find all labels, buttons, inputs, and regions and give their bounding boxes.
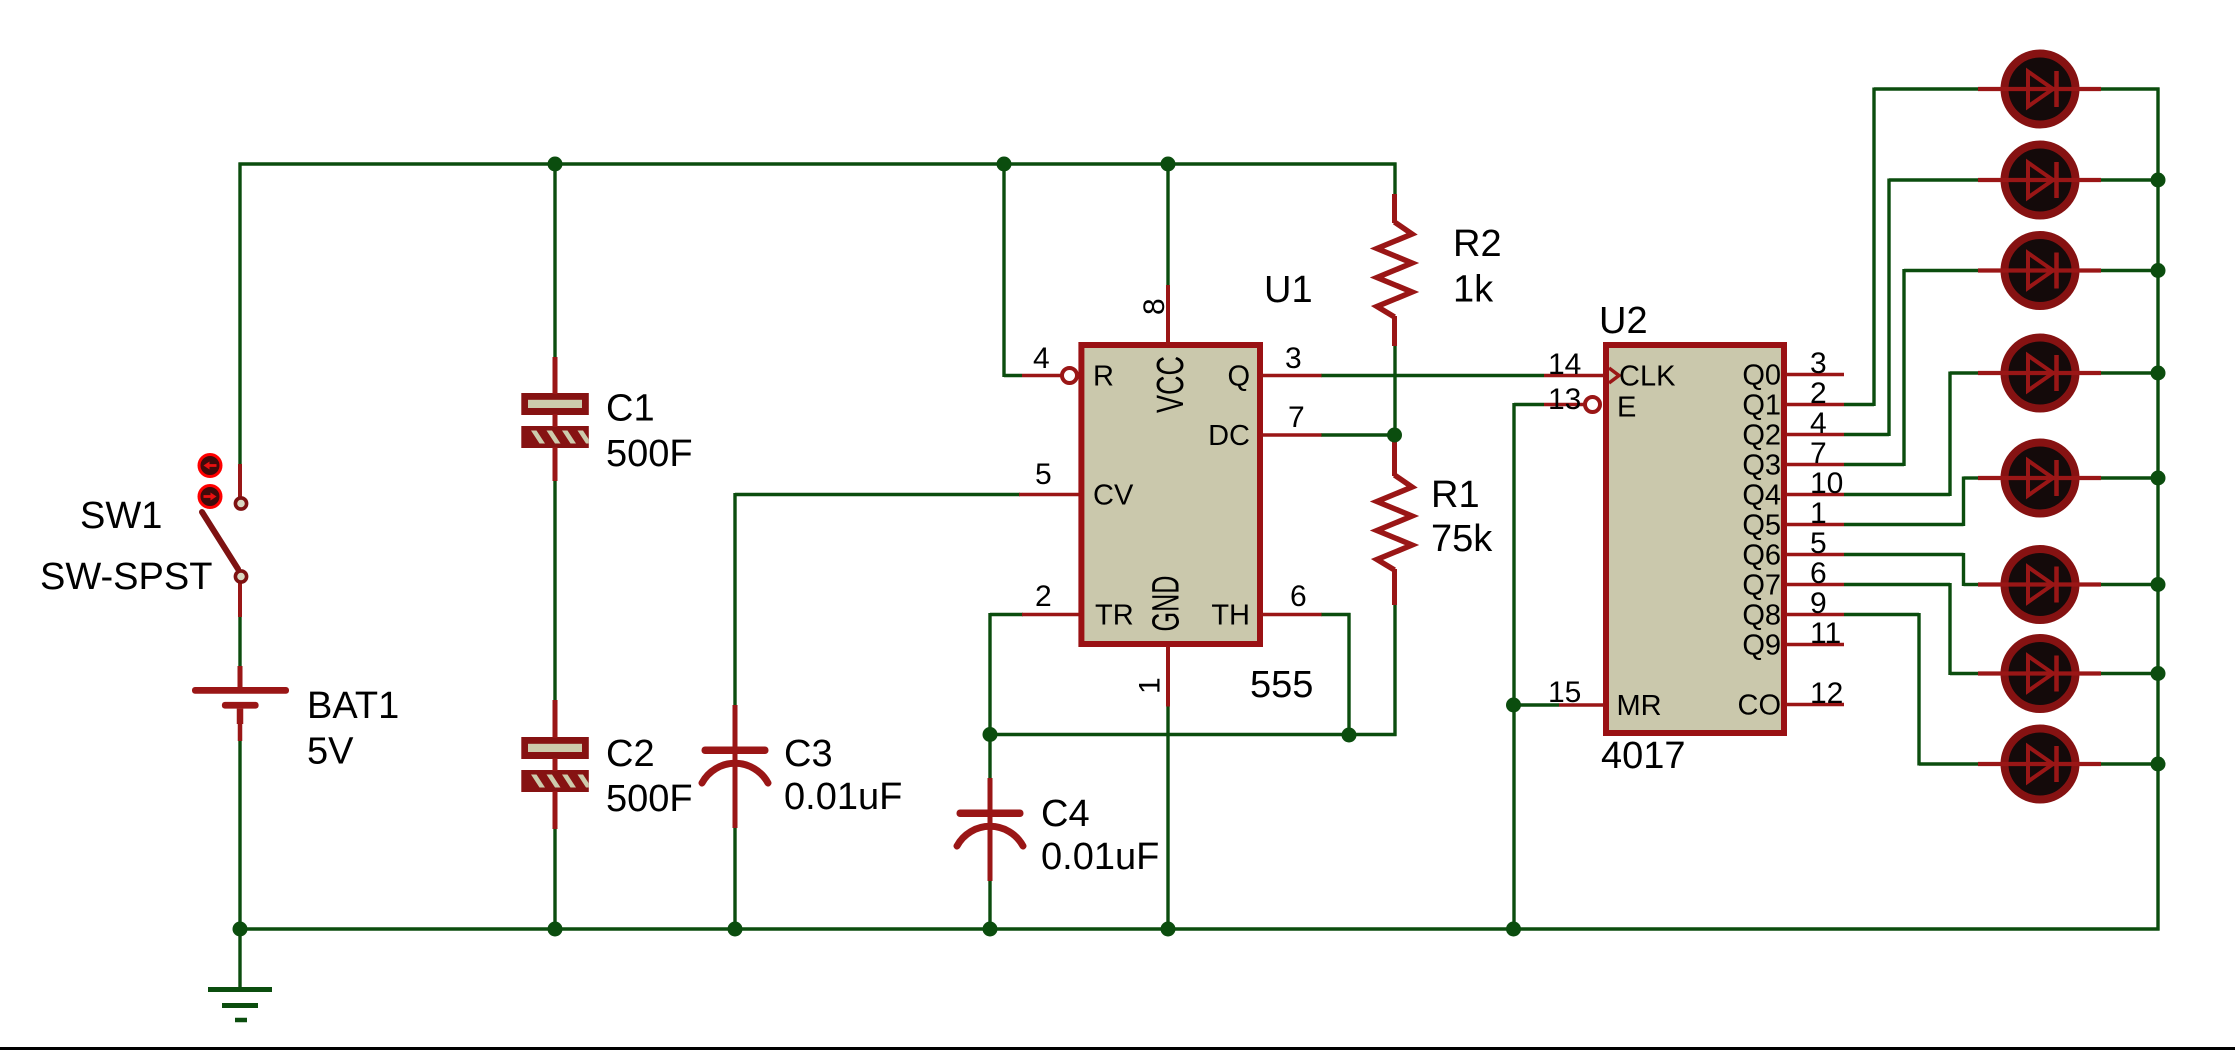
svg-text:555: 555 — [1250, 664, 1313, 706]
svg-text:2: 2 — [1035, 580, 1052, 613]
svg-text:Q4: Q4 — [1742, 480, 1781, 512]
svg-text:Q0: Q0 — [1742, 360, 1781, 392]
svg-text:14: 14 — [1548, 348, 1581, 381]
svg-text:3: 3 — [1810, 347, 1827, 380]
svg-text:C4: C4 — [1041, 793, 1090, 835]
svg-text:500F: 500F — [606, 778, 693, 820]
svg-text:9: 9 — [1810, 587, 1827, 620]
svg-text:5V: 5V — [307, 731, 354, 773]
svg-text:11: 11 — [1810, 617, 1841, 650]
svg-text:4: 4 — [1033, 342, 1050, 375]
svg-text:3: 3 — [1285, 342, 1302, 375]
svg-text:500F: 500F — [606, 433, 693, 475]
svg-text:0.01uF: 0.01uF — [784, 776, 902, 818]
svg-text:0.01uF: 0.01uF — [1041, 836, 1159, 878]
svg-text:Q1: Q1 — [1742, 390, 1781, 422]
svg-text:1k: 1k — [1453, 269, 1494, 311]
svg-text:2: 2 — [1810, 377, 1827, 410]
svg-text:R: R — [1093, 361, 1114, 393]
svg-text:DC: DC — [1208, 420, 1250, 452]
svg-text:CO: CO — [1738, 690, 1782, 722]
svg-text:BAT1: BAT1 — [307, 685, 399, 727]
svg-text:Q6: Q6 — [1742, 540, 1781, 572]
svg-text:R2: R2 — [1453, 223, 1502, 265]
svg-text:4: 4 — [1810, 407, 1827, 440]
svg-text:Q8: Q8 — [1742, 600, 1781, 632]
svg-text:Q5: Q5 — [1742, 510, 1781, 542]
svg-text:4017: 4017 — [1601, 735, 1686, 777]
svg-text:C3: C3 — [784, 733, 833, 775]
svg-text:CLK: CLK — [1619, 361, 1676, 393]
svg-text:R1: R1 — [1431, 474, 1480, 516]
svg-text:MR: MR — [1617, 690, 1662, 722]
svg-text:SW1: SW1 — [80, 495, 162, 537]
svg-text:C2: C2 — [606, 733, 655, 775]
svg-text:TH: TH — [1211, 600, 1250, 632]
svg-text:1: 1 — [1134, 677, 1167, 694]
svg-text:15: 15 — [1548, 676, 1581, 709]
svg-text:E: E — [1617, 392, 1636, 424]
svg-text:Q: Q — [1227, 361, 1250, 393]
svg-text:7: 7 — [1810, 437, 1827, 470]
svg-text:6: 6 — [1290, 580, 1307, 613]
svg-text:13: 13 — [1548, 383, 1581, 416]
svg-text:5: 5 — [1035, 458, 1052, 491]
svg-text:1: 1 — [1810, 497, 1827, 530]
svg-text:12: 12 — [1810, 677, 1843, 710]
svg-text:Q9: Q9 — [1742, 630, 1781, 662]
svg-text:TR: TR — [1095, 600, 1134, 632]
svg-text:Q7: Q7 — [1742, 570, 1781, 602]
svg-text:Q2: Q2 — [1742, 420, 1781, 452]
svg-text:10: 10 — [1810, 467, 1843, 500]
svg-text:7: 7 — [1288, 401, 1305, 434]
svg-text:CV: CV — [1093, 480, 1134, 512]
svg-text:Q3: Q3 — [1742, 450, 1781, 482]
svg-text:6: 6 — [1810, 557, 1827, 590]
svg-text:75k: 75k — [1431, 518, 1493, 560]
svg-text:U2: U2 — [1599, 300, 1648, 342]
svg-text:GND: GND — [1146, 576, 1188, 632]
svg-text:8: 8 — [1138, 298, 1171, 315]
svg-text:U1: U1 — [1264, 269, 1313, 311]
svg-text:5: 5 — [1810, 527, 1827, 560]
svg-text:SW-SPST: SW-SPST — [40, 556, 212, 598]
svg-text:C1: C1 — [606, 388, 655, 430]
svg-text:VCC: VCC — [1150, 356, 1192, 413]
